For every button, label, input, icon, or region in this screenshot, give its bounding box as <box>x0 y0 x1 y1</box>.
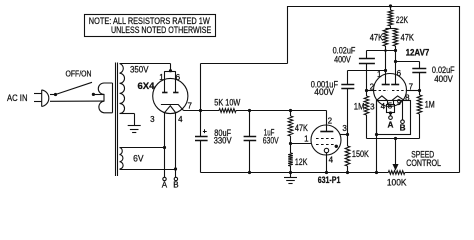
svg-text:1: 1 <box>159 73 164 82</box>
capacitor 80uF 330V <box>195 111 208 173</box>
svg-text:47K: 47K <box>370 33 384 43</box>
pin label 5 (12AV7) <box>388 102 393 111</box>
AC plug body <box>42 90 49 107</box>
capacitor 1uF 630V <box>244 111 257 173</box>
switch throw dot <box>92 93 95 96</box>
junction 6V-A <box>163 146 166 149</box>
svg-text:2: 2 <box>328 116 333 125</box>
junction heater A <box>389 111 392 114</box>
text A (12AV7) <box>388 120 394 129</box>
svg-text:4: 4 <box>178 115 183 124</box>
junction 12K bottom <box>289 171 292 174</box>
wiper arm <box>393 139 397 170</box>
text 150K <box>352 149 369 159</box>
pin label 9 (12AV7) <box>397 98 402 107</box>
6X4 heater <box>165 106 176 113</box>
svg-text:3: 3 <box>150 115 155 124</box>
svg-text:3: 3 <box>370 103 375 112</box>
wire top rail <box>288 6 460 8</box>
junction 1uF bottom <box>248 171 251 174</box>
junction coupling right <box>394 49 397 52</box>
6X4 cathode <box>161 104 184 110</box>
pin label 1 (12AV7) <box>377 70 382 79</box>
pin label 2 (631) <box>328 116 333 125</box>
ground (350V winding) <box>128 126 141 133</box>
wire cathode to ground <box>326 153 328 173</box>
svg-text:400V: 400V <box>434 74 453 84</box>
pin label 6 (12AV7) <box>397 69 402 78</box>
text 22K <box>396 15 408 25</box>
wire 350V bottom to ground <box>120 114 135 126</box>
svg-text:A: A <box>162 180 168 189</box>
text 350V <box>130 65 149 75</box>
svg-text:631-P1: 631-P1 <box>318 175 341 185</box>
wire plug to switch <box>50 94 56 96</box>
svg-text:UNLESS NOTED OTHERWISE: UNLESS NOTED OTHERWISE <box>111 25 211 35</box>
svg-text:4: 4 <box>381 102 386 111</box>
text 631-P1 <box>318 175 341 185</box>
6X4 plate tie bar <box>165 71 176 73</box>
wire plug bottom to primary <box>50 100 104 102</box>
wire cathode pin 7 <box>184 110 201 112</box>
text 1uF <box>264 127 275 137</box>
text AC IN <box>7 93 28 103</box>
svg-text:8: 8 <box>405 94 410 103</box>
junction grid7 node <box>418 89 421 92</box>
svg-text:3: 3 <box>342 124 347 133</box>
text B (12AV7) <box>400 123 406 132</box>
12AV7 grid 7 dashes <box>392 90 406 92</box>
text 5K 10W <box>214 97 241 107</box>
wire 5K to rail <box>236 110 327 112</box>
pin label 6 (6X4) <box>176 73 181 82</box>
pin label 8 (12AV7) <box>405 94 410 103</box>
svg-text:AC IN: AC IN <box>7 93 28 103</box>
text 400V left <box>334 55 351 65</box>
wire cathode pin 3 <box>376 100 378 172</box>
text B <box>173 180 178 189</box>
junction pin3 ground rail <box>375 171 378 174</box>
svg-text:47K: 47K <box>295 123 308 133</box>
text 0.02uF right <box>432 65 455 75</box>
wire heater pin 5 <box>393 100 395 104</box>
wire rail right of pot <box>405 172 460 174</box>
junction wiper node <box>394 137 397 140</box>
transformer secondary 350V winding <box>120 64 125 114</box>
svg-text:9: 9 <box>397 98 402 107</box>
svg-text:5: 5 <box>388 102 393 111</box>
transformer primary winding <box>98 83 112 113</box>
631-P1 plate bar <box>320 125 333 131</box>
wire 6V top to A <box>120 147 165 149</box>
12AV7 grid 2 dashes <box>374 90 388 92</box>
svg-text:6: 6 <box>176 73 181 82</box>
text SPEED <box>411 149 434 159</box>
transformer secondary 6V winding <box>120 148 124 170</box>
svg-text:47K: 47K <box>401 33 415 43</box>
svg-text:7: 7 <box>187 102 192 111</box>
junction plate1 node <box>384 69 387 72</box>
resistor 5K 10W <box>219 109 236 113</box>
resistor 150K <box>345 135 350 173</box>
junction pin3 box <box>375 133 378 136</box>
svg-text:6V: 6V <box>133 154 144 164</box>
svg-text:630V: 630V <box>263 135 279 145</box>
text 0.02uF left <box>333 46 356 56</box>
resistor 1M right <box>417 91 422 139</box>
text 47K right <box>401 33 415 43</box>
wire plate1 to 0.02uF <box>367 50 396 52</box>
capacitor 0.02uF 400V right <box>412 62 426 91</box>
transformer core <box>116 63 118 177</box>
wire heater pin 4 <box>387 100 389 104</box>
potentiometer 100K <box>388 171 405 175</box>
terminal A (12AV7) <box>389 116 393 120</box>
svg-text:CONTROL: CONTROL <box>406 158 441 168</box>
text 1M right <box>425 100 435 110</box>
svg-text:12AV7: 12AV7 <box>406 47 430 57</box>
text 330V <box>214 136 232 146</box>
junction grid2 node <box>365 89 368 92</box>
text 47K left <box>370 33 384 43</box>
svg-text:1: 1 <box>304 135 309 144</box>
631-P1 grid 2 dashes <box>316 144 334 146</box>
svg-text:7: 7 <box>409 82 414 91</box>
AC plug prong top <box>34 93 42 95</box>
svg-text:A: A <box>388 120 394 129</box>
wire pin4 to terminal B <box>175 112 177 177</box>
note text line 1 <box>89 16 210 26</box>
svg-text:350V: 350V <box>130 65 149 75</box>
terminal B (12AV7) <box>401 120 405 124</box>
pin label 4 (6X4) <box>178 115 183 124</box>
text 6X4 <box>138 81 156 91</box>
wire B+ top horizontal <box>201 63 288 65</box>
text 630V <box>263 135 279 145</box>
terminal A <box>163 177 166 180</box>
svg-text:OFF/ON: OFF/ON <box>66 70 92 79</box>
junction 150K bottom <box>346 171 349 174</box>
wire switch to primary <box>93 94 104 96</box>
wire grid pin 2 <box>367 90 375 92</box>
pin label 3 (12AV7) <box>370 103 375 112</box>
pin label 7 (12AV7) <box>409 82 414 91</box>
junction 22K top <box>389 4 392 7</box>
svg-text:400V: 400V <box>334 55 351 65</box>
text 12K <box>295 157 308 167</box>
wire divider to pin 1 <box>291 143 312 145</box>
wire pin3 to terminal A <box>164 113 166 178</box>
svg-text:22K: 22K <box>396 15 408 25</box>
12AV7 plate 1 bar <box>382 84 390 86</box>
resistor 47K right <box>393 29 398 85</box>
6X4 plate leads <box>165 71 176 92</box>
12AV7 cathode right <box>392 96 404 101</box>
switch OFF/ON pole dot <box>54 93 57 96</box>
pin label 1 (6X4) <box>159 73 164 82</box>
junction 6V-B <box>174 167 177 170</box>
wire B+ up <box>200 64 202 111</box>
switch arm <box>56 82 93 94</box>
resistor 1M left <box>364 91 369 139</box>
wire pin 3 (631) <box>340 134 348 136</box>
wire grid bus <box>367 138 420 140</box>
631-P1 cathode <box>324 148 328 152</box>
text 6V <box>133 154 144 164</box>
resistor 47K left <box>383 29 388 85</box>
svg-text:4: 4 <box>329 156 334 165</box>
wire grid pin 7 <box>406 90 419 92</box>
junction plate tie <box>169 69 172 72</box>
text CONTROL <box>406 158 441 168</box>
resistor 47K (divider) <box>288 111 293 144</box>
heater box <box>377 101 411 135</box>
pin label 7 (6X4) <box>187 102 192 111</box>
wire ground rail <box>201 172 389 174</box>
wire 6V bottom to B <box>120 169 176 171</box>
svg-text:400V: 400V <box>314 87 334 97</box>
resistor 12K <box>288 144 293 173</box>
631-P1 gas dot <box>335 145 338 148</box>
text 12AV7 <box>406 47 430 57</box>
wire rail to 631 plate <box>326 111 328 126</box>
tube 6X4 envelope <box>153 78 188 113</box>
capacitor 80uF plus sign <box>203 129 207 133</box>
svg-text:6: 6 <box>397 69 402 78</box>
junction pin3 node <box>346 133 349 136</box>
12AV7 cathode left <box>377 96 388 101</box>
tube 12AV7 envelope <box>374 74 407 107</box>
heater inner box <box>387 105 395 113</box>
6X4 plate pin 6 bar <box>173 92 178 94</box>
text 1M left <box>354 102 365 112</box>
junction 631 cathode ground <box>325 171 328 174</box>
svg-text:B: B <box>400 123 406 132</box>
wire to 5K <box>201 110 220 112</box>
svg-text:6X4: 6X4 <box>138 81 156 91</box>
note text line 2 <box>111 25 211 35</box>
wire heater pin 9 <box>402 101 404 120</box>
6X4 plate pin 1 bar <box>162 92 167 94</box>
junction coupling left <box>384 49 387 52</box>
junction divider node <box>289 142 292 145</box>
svg-text:1M: 1M <box>425 100 435 110</box>
pin label 4 (12AV7) <box>381 102 386 111</box>
pin label 4 (631) <box>329 156 334 165</box>
svg-text:1: 1 <box>377 70 382 79</box>
pin label 1 (631) <box>304 135 309 144</box>
tube 631-P1 envelope <box>311 125 341 155</box>
text 100K <box>387 177 407 187</box>
text A <box>162 180 168 189</box>
text 47K divider <box>295 123 308 133</box>
12AV7 plate 6 bar <box>391 84 399 86</box>
svg-text:B: B <box>173 180 178 189</box>
svg-text:1M: 1M <box>354 102 365 112</box>
capacitor 0.02uF 400V left <box>359 51 375 91</box>
ground (main) <box>284 173 297 184</box>
capacitor 0.001uF 400V <box>341 71 385 135</box>
text 400V right <box>434 74 453 84</box>
text 80uF <box>214 128 231 138</box>
svg-text:2: 2 <box>370 82 375 91</box>
text 400V (0.001uF) <box>314 87 334 97</box>
wire plate6 to right cap <box>396 61 420 63</box>
wire 47K tie bar <box>386 28 396 30</box>
junction plate6 coupling <box>394 60 397 63</box>
wire B+ riser <box>287 6 289 64</box>
631-P1 grid 1 dashes <box>316 138 334 140</box>
wire right rail <box>459 6 461 173</box>
wire 350V top to plates <box>120 64 171 71</box>
pin label 2 (12AV7) <box>370 82 375 91</box>
junction 47K top <box>289 109 292 112</box>
resistor 22K <box>388 6 393 29</box>
node B+ junction <box>199 109 202 112</box>
svg-text:150K: 150K <box>352 149 369 159</box>
svg-text:5K 10W: 5K 10W <box>214 97 241 107</box>
text 0.001uF <box>311 80 339 90</box>
pin label 3 (631) <box>342 124 347 133</box>
wire to terminal A (12AV7) <box>390 113 392 116</box>
terminal B <box>174 177 177 180</box>
note box <box>85 15 216 37</box>
svg-text:12K: 12K <box>295 157 308 167</box>
svg-text:330V: 330V <box>214 136 232 146</box>
text OFF/ON <box>66 70 92 79</box>
AC plug prong bottom <box>34 101 42 103</box>
svg-text:100K: 100K <box>387 177 407 187</box>
junction 1uF top <box>248 109 251 112</box>
pin label 3 (6X4) <box>150 115 155 124</box>
